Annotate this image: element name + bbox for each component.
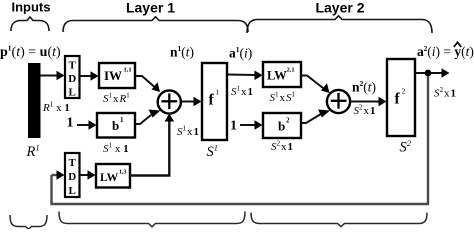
junction dot on output [425, 70, 432, 77]
TDL block 1 [65, 56, 80, 98]
wire feedback from output junction down, across bottom, up to TDL2 [52, 76, 429, 204]
svg-text:T: T [69, 157, 77, 169]
wire LW13 right then up into sum1 [130, 120, 169, 176]
wire 1 to b2 [240, 124, 255, 126]
wire bar to TDL1 [41, 75, 58, 77]
svg-text:S1 x R1: S1 x R1 [103, 92, 130, 106]
svg-text:1: 1 [230, 119, 237, 134]
svg-text:1: 1 [216, 88, 220, 97]
weight matrix IW 1,1 [99, 63, 135, 88]
input vector bar R1 [28, 63, 41, 138]
under-brace Layer 2 [251, 213, 427, 227]
under-brace Layer 1 [59, 212, 245, 227]
wire sum1 to f1 [181, 101, 194, 103]
svg-text:1: 1 [120, 116, 124, 124]
wire LW21 to sum2 [301, 76, 323, 89]
wire sum2 to f2 [350, 101, 379, 103]
wire TDL1 to IW [80, 75, 92, 77]
svg-text:R1 x 1: R1 x 1 [42, 101, 70, 115]
svg-text:Layer 2: Layer 2 [315, 0, 364, 16]
over-brace Inputs [11, 17, 49, 31]
bias b1 [97, 113, 135, 138]
summing junction sum2 [327, 90, 350, 113]
over-brace Layer 2 [247, 16, 432, 33]
svg-text:2: 2 [286, 117, 290, 125]
svg-text:S2 x 1: S2 x 1 [271, 140, 293, 154]
weight matrix LW 1,3 [96, 164, 130, 188]
svg-text:b: b [112, 118, 119, 133]
svg-text:Layer 1: Layer 1 [126, 0, 175, 16]
svg-text:n1(t): n1(t) [170, 44, 194, 60]
wire TDL2 to LW13 [80, 174, 89, 176]
svg-text:f: f [395, 91, 401, 108]
svg-text:S1 x 1: S1 x 1 [103, 142, 129, 156]
wire IW to sum1 [135, 76, 154, 87]
under-brace input section [10, 215, 47, 229]
svg-text:S2 x 1: S2 x 1 [434, 86, 456, 100]
svg-text:LW: LW [100, 172, 119, 184]
svg-text:2: 2 [402, 87, 406, 96]
transfer function f2 [387, 59, 415, 136]
weight matrix LW 2,1 [263, 62, 301, 87]
svg-text:2,1: 2,1 [287, 67, 295, 74]
wire b1 to sum1 [135, 115, 151, 124]
svg-text:IW: IW [104, 68, 122, 83]
wire b2 to sum2 [301, 114, 321, 123]
svg-text:n2(t): n2(t) [352, 79, 376, 95]
svg-text:S1 x 1: S1 x 1 [177, 125, 199, 139]
bias b2 [263, 113, 301, 138]
svg-text:f: f [209, 92, 215, 109]
wire 1 to b1 [77, 124, 89, 126]
wire f2 to output [415, 72, 442, 74]
svg-text:Inputs: Inputs [12, 0, 51, 15]
svg-text:D: D [68, 171, 76, 183]
wire f1 to LW21 [227, 74, 255, 77]
svg-text:T: T [69, 60, 77, 72]
TDL block 2 [65, 153, 80, 197]
svg-text:L: L [69, 87, 76, 99]
svg-text:b: b [278, 119, 285, 134]
summing junction sum1 [158, 90, 181, 113]
svg-text:L: L [69, 185, 76, 197]
transfer function f1 [202, 63, 227, 140]
over-brace Layer 1 [63, 17, 248, 32]
svg-text:LW: LW [267, 69, 287, 83]
svg-text:1: 1 [67, 116, 74, 131]
svg-text:D: D [68, 73, 76, 85]
svg-text:a1(i): a1(i) [229, 45, 252, 61]
svg-text:1,3: 1,3 [119, 170, 127, 176]
svg-text:1,1: 1,1 [124, 67, 132, 74]
svg-text:S1 x 1: S1 x 1 [231, 85, 253, 99]
svg-text:S2 x 1: S2 x 1 [354, 104, 376, 118]
